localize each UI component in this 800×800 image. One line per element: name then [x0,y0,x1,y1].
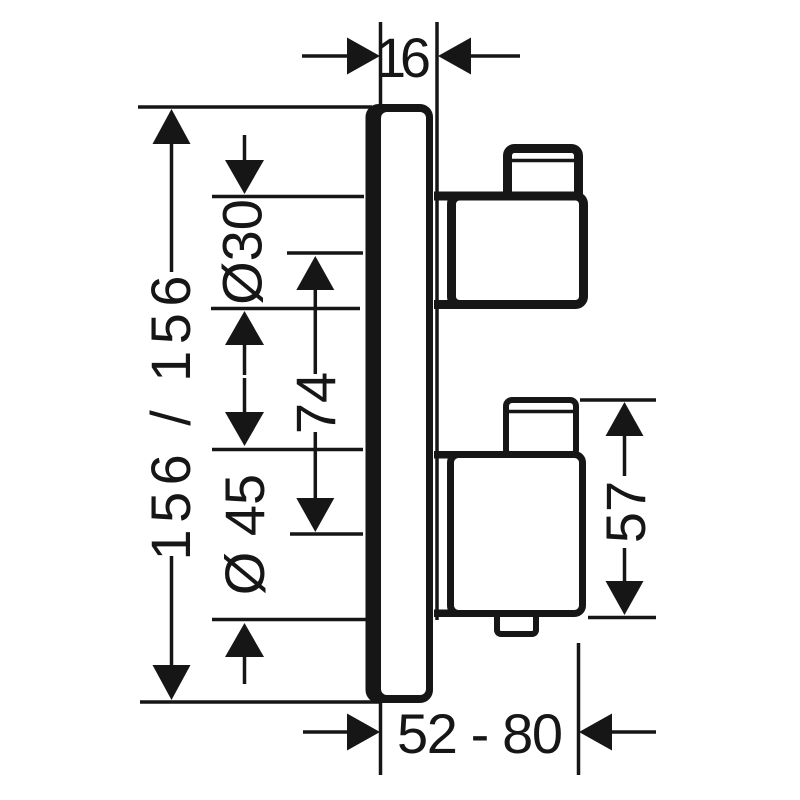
dim 16: right leader [469,54,520,58]
dim O30: top extension line [212,195,364,199]
arrow 156 top (points up) [153,109,191,144]
dim 156/156: dimension line lower segment [170,556,174,667]
arrow O30 top (points down) [225,160,264,194]
dim 156/156: bottom extension line [140,700,380,704]
arrow O30 bottom (points up) [225,311,264,345]
arrow 74 top (points up) [296,256,334,290]
top handle body [452,196,584,305]
top handle grip [508,149,579,201]
bottom handle body [451,455,583,614]
arrow O45 bottom (points up) [225,623,264,657]
dim 57: dimension line upper segment [623,434,627,476]
escutcheon plate face [381,112,426,695]
dim 57: dimension line lower segment [623,548,627,583]
svg-text:Ø 45: Ø 45 [213,474,276,595]
bottom handle grip [506,400,576,456]
arrow 52-80 right (points left) [579,714,612,751]
dim 74: top extension line [287,251,363,255]
dim 156/156: top extension line [138,105,372,109]
dim 16: right extension / wall line [435,22,439,620]
dim O45: upper leader [243,378,247,414]
neck bottom handle lower edge [434,610,460,618]
dim 52-80: left leader [303,730,350,734]
dim 52-80: left extension line [379,700,383,775]
escutcheon plate outline [366,104,434,703]
arrow 16 right (points left) [438,38,471,75]
arrow 74 bottom (points down) [296,498,334,532]
neck top handle lower edge [434,300,460,309]
dim 52-80: right extension line [577,643,581,775]
dim 52-80: right leader [610,730,656,734]
dim 16: left leader [302,54,349,58]
bottom handle tab [497,605,536,634]
arrow O45 top (points down) [225,412,264,446]
svg-text:16: 16 [375,26,431,89]
dim 57: bottom extension line [588,616,656,620]
dim O30: lower leader [243,340,247,375]
dim O45: bottom extension line [212,618,371,622]
dim 74: dimension line upper segment [314,288,318,374]
arrow 156 bottom (points down) [153,665,191,700]
arrow 16 left (points right) [347,38,380,75]
svg-text:Ø30: Ø30 [211,199,274,305]
dim O30: upper leader [243,135,247,165]
dim O45: top extension line [212,448,363,452]
arrow 52-80 left (points right) [347,714,380,751]
svg-text:57: 57 [594,481,657,543]
dim O45: lower leader [243,655,247,684]
bottom handle grip inner line [509,410,573,414]
top handle grip inner line [512,159,575,163]
dim O30: bottom extension line [211,307,360,311]
dim 57: top extension line [580,398,656,402]
arrow 57 bottom (points down) [606,581,644,615]
svg-text:52 - 80: 52 - 80 [397,702,563,765]
dim 16: left extension line [379,22,383,110]
neck top handle upper edge [434,192,460,201]
dim 74: bottom extension line [290,532,363,536]
svg-text:156 / 156: 156 / 156 [139,276,202,561]
dim 74: dimension line lower segment [314,432,318,501]
neck bottom handle upper edge [434,451,460,459]
svg-text:74: 74 [284,372,347,434]
dim 156/156: dimension line upper segment [170,140,174,272]
arrow 57 top (points up) [606,402,644,436]
